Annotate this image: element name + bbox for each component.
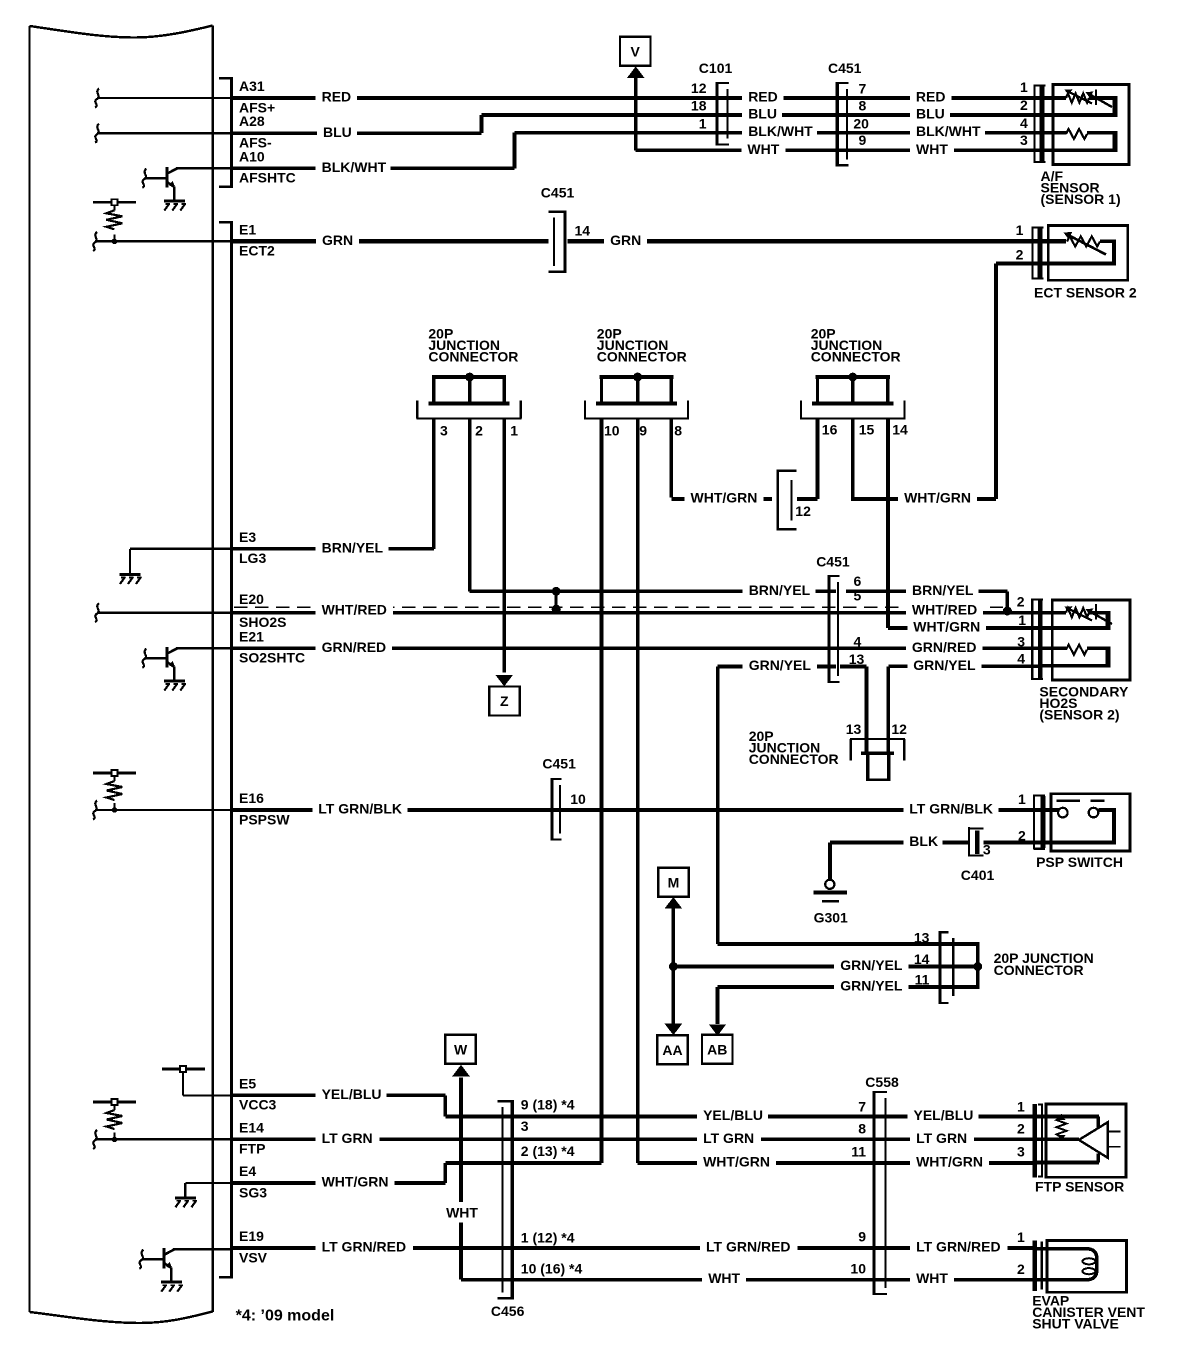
svg-text:WHT: WHT [916, 141, 948, 157]
svg-text:BLK/WHT: BLK/WHT [916, 123, 981, 139]
svg-text:Z: Z [500, 693, 509, 709]
svg-text:3: 3 [1020, 132, 1028, 148]
svg-text:7: 7 [859, 81, 867, 97]
svg-text:WHT: WHT [916, 1270, 948, 1286]
svg-text:GRN/YEL: GRN/YEL [913, 657, 976, 673]
svg-text:VCC3: VCC3 [239, 1097, 277, 1113]
svg-text:14: 14 [575, 222, 591, 238]
svg-text:LT GRN/RED: LT GRN/RED [706, 1239, 791, 1255]
svg-text:ECT2: ECT2 [239, 243, 275, 259]
svg-text:BRN/YEL: BRN/YEL [322, 539, 384, 555]
svg-text:V: V [631, 44, 641, 60]
svg-text:LT GRN/BLK: LT GRN/BLK [909, 801, 993, 817]
svg-text:E14: E14 [239, 1119, 264, 1135]
svg-text:GRN/RED: GRN/RED [912, 639, 977, 655]
svg-text:BLK/WHT: BLK/WHT [322, 159, 387, 175]
svg-text:11: 11 [915, 971, 930, 987]
svg-text:PSPSW: PSPSW [239, 811, 290, 827]
svg-text:C456: C456 [491, 1303, 525, 1319]
svg-text:10 (16) *4: 10 (16) *4 [521, 1261, 583, 1277]
svg-text:WHT/RED: WHT/RED [912, 602, 977, 618]
svg-text:3: 3 [440, 422, 448, 438]
svg-text:LT GRN/RED: LT GRN/RED [322, 1239, 407, 1255]
svg-text:LG3: LG3 [239, 550, 266, 566]
svg-text:8: 8 [858, 1121, 866, 1137]
svg-text:11: 11 [851, 1144, 866, 1160]
svg-text:E4: E4 [239, 1163, 256, 1179]
svg-text:C451: C451 [828, 60, 862, 76]
svg-text:9 (18) *4: 9 (18) *4 [521, 1097, 575, 1113]
svg-text:BLK/WHT: BLK/WHT [748, 123, 813, 139]
svg-text:12: 12 [691, 80, 707, 96]
svg-text:E3: E3 [239, 529, 256, 545]
svg-text:14: 14 [914, 951, 930, 967]
svg-text:W: W [454, 1042, 468, 1058]
svg-text:G301: G301 [814, 910, 848, 926]
svg-text:4: 4 [1017, 651, 1025, 667]
svg-text:10: 10 [570, 791, 586, 807]
svg-text:WHT: WHT [708, 1270, 740, 1286]
svg-text:5: 5 [854, 588, 862, 604]
svg-text:VSV: VSV [239, 1249, 268, 1265]
svg-text:18: 18 [691, 98, 707, 114]
svg-text:WHT/RED: WHT/RED [322, 602, 387, 618]
svg-text:2 (13) *4: 2 (13) *4 [521, 1143, 575, 1159]
svg-text:1 (12) *4: 1 (12) *4 [521, 1230, 575, 1246]
svg-text:8: 8 [674, 422, 682, 438]
svg-text:A28: A28 [239, 113, 265, 129]
svg-text:12: 12 [891, 721, 907, 737]
svg-text:BLU: BLU [748, 106, 777, 122]
svg-text:BRN/YEL: BRN/YEL [912, 582, 974, 598]
svg-text:LT GRN/BLK: LT GRN/BLK [318, 801, 402, 817]
svg-text:CONNECTOR: CONNECTOR [994, 962, 1084, 978]
svg-text:GRN: GRN [322, 232, 353, 248]
svg-text:GRN/RED: GRN/RED [322, 639, 387, 655]
svg-text:2: 2 [1016, 247, 1024, 263]
svg-text:LT GRN: LT GRN [916, 1130, 967, 1146]
svg-text:E5: E5 [239, 1075, 256, 1091]
svg-text:3: 3 [1017, 633, 1025, 649]
svg-text:PSP SWITCH: PSP SWITCH [1036, 854, 1123, 870]
svg-text:E21: E21 [239, 628, 264, 644]
svg-text:YEL/BLU: YEL/BLU [322, 1086, 382, 1102]
svg-text:GRN/YEL: GRN/YEL [749, 657, 812, 673]
svg-text:16: 16 [822, 421, 838, 437]
svg-text:WHT/GRN: WHT/GRN [904, 490, 971, 506]
svg-text:9: 9 [858, 1229, 866, 1245]
svg-text:M: M [668, 874, 680, 890]
svg-text:WHT/GRN: WHT/GRN [913, 619, 980, 635]
svg-text:(SENSOR 1): (SENSOR 1) [1041, 191, 1121, 207]
svg-text:GRN/YEL: GRN/YEL [840, 957, 903, 973]
svg-text:BLK: BLK [909, 833, 938, 849]
svg-text:WHT: WHT [446, 1204, 478, 1220]
svg-text:10: 10 [604, 422, 620, 438]
svg-text:9: 9 [859, 132, 867, 148]
svg-text:C451: C451 [816, 554, 850, 570]
svg-text:AB: AB [707, 1041, 727, 1057]
svg-text:*4: ’09 model: *4: ’09 model [236, 1308, 335, 1325]
svg-text:YEL/BLU: YEL/BLU [914, 1107, 974, 1123]
svg-text:20: 20 [853, 115, 869, 131]
svg-text:10: 10 [850, 1261, 866, 1277]
svg-text:SO2SHTC: SO2SHTC [239, 650, 305, 666]
svg-text:GRN: GRN [610, 232, 641, 248]
svg-text:9: 9 [639, 422, 647, 438]
svg-text:WHT/GRN: WHT/GRN [322, 1174, 389, 1190]
svg-text:FTP: FTP [239, 1141, 265, 1157]
svg-text:4: 4 [1020, 115, 1028, 131]
svg-text:WHT/GRN: WHT/GRN [703, 1154, 770, 1170]
svg-text:WHT/GRN: WHT/GRN [691, 490, 758, 506]
svg-text:AA: AA [662, 1042, 682, 1058]
svg-text:E19: E19 [239, 1228, 264, 1244]
svg-text:YEL/BLU: YEL/BLU [703, 1107, 763, 1123]
svg-text:A10: A10 [239, 148, 265, 164]
svg-text:BLU: BLU [323, 124, 352, 140]
svg-text:15: 15 [859, 421, 875, 437]
svg-text:CONNECTOR: CONNECTOR [597, 349, 687, 365]
svg-text:A31: A31 [239, 78, 265, 94]
svg-text:C101: C101 [699, 60, 733, 76]
svg-text:E20: E20 [239, 591, 264, 607]
svg-text:SG3: SG3 [239, 1184, 267, 1200]
svg-text:2: 2 [1017, 1261, 1025, 1277]
svg-text:7: 7 [858, 1098, 866, 1114]
svg-text:(SENSOR 2): (SENSOR 2) [1039, 707, 1119, 723]
svg-text:SHUT VALVE: SHUT VALVE [1032, 1316, 1119, 1332]
svg-text:2: 2 [1018, 827, 1026, 843]
svg-text:12: 12 [795, 503, 811, 519]
svg-text:CONNECTOR: CONNECTOR [428, 349, 518, 365]
svg-text:RED: RED [322, 89, 352, 105]
svg-text:1: 1 [1018, 612, 1026, 628]
svg-text:LT GRN/RED: LT GRN/RED [916, 1239, 1001, 1255]
svg-text:13: 13 [846, 721, 862, 737]
svg-text:GRN/YEL: GRN/YEL [840, 978, 903, 994]
svg-text:1: 1 [1020, 79, 1028, 95]
svg-text:13: 13 [914, 929, 930, 945]
svg-text:BLU: BLU [916, 106, 945, 122]
svg-text:2: 2 [1017, 594, 1025, 610]
svg-text:8: 8 [859, 98, 867, 114]
svg-text:WHT/GRN: WHT/GRN [916, 1154, 983, 1170]
svg-text:2: 2 [1020, 97, 1028, 113]
svg-text:1: 1 [510, 422, 518, 438]
svg-text:LT GRN: LT GRN [703, 1130, 754, 1146]
svg-text:RED: RED [916, 89, 946, 105]
svg-text:1: 1 [1018, 791, 1026, 807]
svg-text:ECT SENSOR 2: ECT SENSOR 2 [1034, 285, 1137, 301]
svg-text:E1: E1 [239, 221, 256, 237]
svg-text:E16: E16 [239, 790, 264, 806]
svg-text:2: 2 [475, 422, 483, 438]
svg-text:13: 13 [849, 651, 865, 667]
svg-text:AFSHTC: AFSHTC [239, 170, 296, 186]
svg-text:FTP SENSOR: FTP SENSOR [1035, 1179, 1124, 1195]
svg-text:1: 1 [699, 115, 707, 131]
svg-text:1: 1 [1017, 1229, 1025, 1245]
svg-text:4: 4 [854, 633, 862, 649]
svg-text:C558: C558 [865, 1074, 899, 1090]
svg-text:2: 2 [1017, 1121, 1025, 1137]
svg-text:3: 3 [521, 1118, 529, 1134]
svg-text:1: 1 [1016, 222, 1024, 238]
svg-text:LT GRN: LT GRN [322, 1130, 373, 1146]
svg-text:1: 1 [1017, 1098, 1025, 1114]
svg-text:C451: C451 [542, 756, 576, 772]
svg-text:WHT: WHT [747, 141, 779, 157]
svg-text:14: 14 [892, 421, 908, 437]
svg-text:CONNECTOR: CONNECTOR [749, 751, 839, 767]
svg-text:RED: RED [748, 89, 778, 105]
svg-text:BRN/YEL: BRN/YEL [749, 582, 811, 598]
svg-text:3: 3 [1017, 1144, 1025, 1160]
svg-text:CONNECTOR: CONNECTOR [811, 349, 901, 365]
svg-text:3: 3 [983, 842, 991, 858]
svg-text:C451: C451 [541, 185, 575, 201]
svg-text:C401: C401 [961, 867, 995, 883]
